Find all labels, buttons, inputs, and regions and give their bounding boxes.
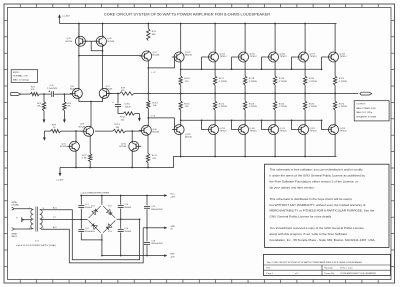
svg-text:TIP41C: TIP41C <box>280 56 288 58</box>
svg-text:c-about BRIDGE RECTIFIER: c-about BRIDGE RECTIFIER <box>81 191 110 194</box>
diode D#3 <box>103 221 115 233</box>
ground flag at R#6 <box>43 131 45 140</box>
wire R#26 to Q#23 <box>334 110 336 125</box>
wire base jog Q#23 <box>321 119 326 129</box>
svg-text:(+) 45V: (+) 45V <box>63 16 71 18</box>
resistor R#7 1.8k <box>82 154 92 162</box>
wire Q#14 collector to VCC rail <box>214 23 216 52</box>
svg-text:(at your option) any later ver: (at your option) any later version. <box>270 185 315 189</box>
VCC output flag <box>159 194 176 199</box>
capacitor C#1 3300uF <box>78 195 92 209</box>
wire R#21 to output rail <box>334 85 336 94</box>
svg-text:-45V: -45V <box>170 256 175 258</box>
svg-text:along with this program; if no: along with this program; if not, write t… <box>270 232 348 236</box>
svg-text:MAX POWER: 50W: MAX POWER: 50W <box>356 107 376 110</box>
wire Q13 collector down <box>180 135 182 158</box>
wire Q#19 collector to VEE rail <box>214 135 216 158</box>
svg-text:TIP41C: TIP41C <box>340 56 348 58</box>
svg-text:R#14: R#14 <box>184 78 190 80</box>
transistor Q#19 TIP42C <box>206 124 227 135</box>
wire secondary A#1 <box>41 206 139 259</box>
resistor R#20 0.75/5W <box>303 76 317 85</box>
svg-text:BC546: BC546 <box>106 88 113 90</box>
wire secondary A#2 <box>41 226 143 263</box>
wire C4 bottom to VEE <box>120 233 122 257</box>
svg-text:R#21: R#21 <box>339 78 345 80</box>
svg-text:R#24: R#24 <box>279 103 285 105</box>
wire output rail <box>140 93 358 95</box>
wire R#22 to Q#19 <box>214 110 216 125</box>
wire C2 bottom <box>81 233 102 241</box>
svg-text:GND: GND <box>170 226 175 228</box>
wire PSU VEE rail <box>102 255 159 257</box>
svg-text:2: 2 <box>29 227 30 229</box>
mains pin L <box>12 202 32 210</box>
wire Q7 emitter down <box>147 61 149 100</box>
wire R13 to Q8 base <box>126 130 141 132</box>
wire Q12 collector <box>180 23 182 52</box>
resistor R#18 0.75/5W <box>243 76 257 85</box>
svg-text:the Free Software Foundation;: the Free Software Foundation; either ver… <box>270 179 358 183</box>
VCC +45V power flag <box>58 15 70 24</box>
svg-text:Q#17: Q#17 <box>310 53 316 55</box>
svg-text:TIP42C: TIP42C <box>220 131 228 133</box>
svg-text:R#20: R#20 <box>309 78 315 80</box>
transistor Q#4 BC546 <box>60 141 79 152</box>
wire input node <box>39 93 51 95</box>
svg-text:1: 1 <box>29 208 30 210</box>
wire R16 to Q13 <box>180 110 182 125</box>
capacitor C#3 3300uF <box>118 195 132 209</box>
resistor R#11 470 <box>146 154 157 163</box>
svg-text:0.75/5W: 0.75/5W <box>279 81 288 83</box>
wire Q4 collector up <box>75 131 77 141</box>
transistor Q#21 TIP42C <box>266 124 287 135</box>
svg-text:OUTPUT:: OUTPUT: <box>356 104 366 106</box>
net stub L#2 <box>148 57 177 74</box>
wire C3 to mid <box>120 209 122 229</box>
capacitor C#2 3300uF <box>78 228 92 233</box>
wire Q11 collector up <box>131 131 133 141</box>
wire Q#18 emitter <box>334 62 336 76</box>
resistor R#22 0.75/5W <box>213 94 227 111</box>
svg-text:3300uF: 3300uF <box>124 207 132 209</box>
svg-text:BD140: BD140 <box>185 137 192 139</box>
svg-text:Q#22: Q#22 <box>310 128 316 130</box>
wire R#17 to output rail <box>214 85 216 94</box>
transistor Q#14 TIP41C <box>206 52 227 63</box>
resistor R#9 22k <box>120 87 135 95</box>
wire PSU ground rail <box>143 227 158 229</box>
resistor R#17 0.75/5W <box>213 76 227 85</box>
wire mirror out to VAS base <box>78 55 141 57</box>
svg-text:0.75/5W: 0.75/5W <box>219 106 228 108</box>
wire Q#16 emitter <box>274 62 276 76</box>
svg-text:Q#19: Q#19 <box>220 128 226 130</box>
svg-text:BC546: BC546 <box>153 55 160 57</box>
svg-text:0.75/5W: 0.75/5W <box>339 81 348 83</box>
output connector flag <box>360 92 372 95</box>
svg-text:R#19: R#19 <box>279 78 285 80</box>
wire bridge top to VCC <box>101 195 103 205</box>
transistor Q#12 BD139 <box>172 52 193 63</box>
svg-text:3300uF: 3300uF <box>124 231 132 233</box>
resistor R#13 390 <box>113 124 126 133</box>
wire Q6 rail tap <box>102 23 104 36</box>
title block <box>264 254 391 275</box>
svg-text:TIP42C: TIP42C <box>340 131 348 133</box>
wire base jog Q#22 <box>291 119 296 129</box>
svg-text:3300uF: 3300uF <box>85 231 93 233</box>
resistor R#2 47k <box>37 94 46 110</box>
wire Q#23 collector to VEE rail <box>334 135 336 157</box>
svg-text:100uF: 100uF <box>125 106 132 108</box>
svg-text:0.75/5W: 0.75/5W <box>309 106 318 108</box>
VEE output flag <box>159 254 176 259</box>
wire R#25 to Q#22 <box>304 110 306 125</box>
resistor R#25 0.75/5W <box>303 94 317 111</box>
resistor R#16 220 <box>179 94 190 111</box>
svg-text:0.75/5W: 0.75/5W <box>309 81 318 83</box>
capacitor C#6 6800uF <box>144 228 163 245</box>
svg-text:R#12: R#12 <box>153 102 159 104</box>
svg-text:Q#20: Q#20 <box>250 128 256 130</box>
wire R12 to Q8 <box>147 109 149 126</box>
svg-text:BC546: BC546 <box>79 126 86 128</box>
bridge label <box>81 191 110 194</box>
wire secondary CT <box>41 217 87 219</box>
transistor Q#17 TIP41C <box>296 52 317 63</box>
svg-text:Q#13: Q#13 <box>185 134 191 136</box>
svg-text:Q#16: Q#16 <box>280 53 286 55</box>
sheet title text <box>104 12 270 17</box>
wire bridge bottom to VEE <box>101 234 103 257</box>
wire base jog Q#21 <box>261 119 266 129</box>
svg-text:MAX: 1V (2Vpp): MAX: 1V (2Vpp) <box>13 78 29 81</box>
transistor Q#20 TIP42C <box>236 124 257 135</box>
svg-text:Foundation, Inc., 59 Temple Pl: Foundation, Inc., 59 Temple Place - Suit… <box>270 238 376 242</box>
svg-text:Q#12: Q#12 <box>185 52 191 54</box>
diode D#2 <box>103 205 115 218</box>
svg-text:R#18: R#18 <box>249 78 255 80</box>
wire upper base bus <box>181 68 322 70</box>
svg-text:NEUT: NEUT <box>12 236 18 238</box>
transistor Q#13 BD140 <box>172 124 193 138</box>
svg-text:File:: File: <box>267 268 271 270</box>
wire Q#15 emitter <box>244 62 246 76</box>
wire base jog Q#17 <box>291 57 296 70</box>
resistor R#10 100 <box>118 107 135 122</box>
svg-text:6800uF/50V: 6800uF/50V <box>151 243 163 245</box>
wire base jog Q#16 <box>261 57 266 70</box>
svg-text:This schematic is free softwar: This schematic is free software; you can… <box>270 168 364 172</box>
transistor Q#18 TIP41C <box>326 52 347 63</box>
wire R#23 to Q#20 <box>244 110 246 125</box>
wire Q4 emitter to rail <box>75 151 77 168</box>
svg-text:20 70 + Core: 20 70 + Core <box>340 268 353 270</box>
input connector IN <box>11 93 31 96</box>
svg-text:Q#11: Q#11 <box>121 143 127 145</box>
output note box <box>354 101 389 121</box>
capacitor C#9 2.2uF <box>47 85 58 97</box>
ground flag below R#3 <box>63 111 65 123</box>
wire Q2 collector <box>102 45 104 89</box>
svg-text:Page 1: Page 1 <box>267 273 275 275</box>
svg-text:+45V: +45V <box>170 196 176 198</box>
svg-text:R#10: R#10 <box>120 117 126 119</box>
svg-text:TIP41C: TIP41C <box>310 56 318 58</box>
resistor R#1 47k <box>30 87 39 96</box>
net stub L#3 <box>148 115 177 129</box>
transistor Q#23 TIP42C <box>326 124 347 135</box>
transistor Q#8 BC546 <box>139 125 160 136</box>
svg-text:Q#21: Q#21 <box>280 128 286 130</box>
svg-text:6800uF/50V: 6800uF/50V <box>151 209 163 211</box>
transistor Q#3 BC546 <box>79 124 94 137</box>
svg-text:a-plr-th PLUG IN POWER SUPPLY: a-plr-th PLUG IN POWER SUPPLY (DUAL) <box>16 244 56 247</box>
transistor Q#16 TIP41C <box>266 52 287 63</box>
resistor R#24 0.75/5W <box>273 94 287 111</box>
resistor R#26 0.75/5W <box>333 94 347 111</box>
wire R#18 to output rail <box>244 85 246 94</box>
svg-text:but WITHOUT ANY WARRANTY; with: but WITHOUT ANY WARRANTY; without even t… <box>270 203 366 207</box>
svg-text:R#23: R#23 <box>249 103 255 105</box>
wire feedback node <box>107 93 140 95</box>
transistor Q#15 TIP41C <box>236 52 257 63</box>
transistor Q#5 BC556 <box>66 36 88 47</box>
wire R6 to Q9 base <box>61 130 84 132</box>
wire mirror base link <box>86 41 104 51</box>
wire Q12 emitter / base bus tap <box>180 62 182 76</box>
wire R7 to rail <box>89 162 91 169</box>
diode D#4 <box>89 221 101 233</box>
svg-text:0.75/5W: 0.75/5W <box>339 106 348 108</box>
svg-text:TIP41C: TIP41C <box>220 56 228 58</box>
wire Q#21 collector to VEE rail <box>274 135 276 158</box>
wire bridge right node <box>117 218 141 220</box>
svg-text:TIP42C: TIP42C <box>250 131 258 133</box>
wire base jog Q#19 <box>201 119 206 129</box>
svg-text:INPUT:: INPUT: <box>13 72 20 74</box>
wire Q5 rail tap <box>78 23 80 36</box>
wire bridge left node <box>86 218 88 220</box>
svg-text:BC556: BC556 <box>108 41 115 43</box>
wire base jog Q#18 <box>321 57 326 70</box>
svg-text:Q#18: Q#18 <box>340 53 346 55</box>
svg-text:VCC: VCC <box>170 194 175 196</box>
resistor R#6 1k <box>44 124 60 132</box>
svg-text:0.75/5W: 0.75/5W <box>279 106 288 108</box>
svg-text:0.75/5W: 0.75/5W <box>219 81 228 83</box>
wire Q#15 collector to VCC rail <box>244 23 246 52</box>
ground flag below R#2 <box>43 111 45 123</box>
svg-text:Title: CORE CIRCUIT SYSTEM OF: Title: CORE CIRCUIT SYSTEM OF 50 WATTS P… <box>267 261 363 264</box>
svg-text:TIP41C: TIP41C <box>250 56 258 58</box>
svg-text:0.75/5W: 0.75/5W <box>249 81 258 83</box>
svg-text:CORE AMPLIFIER PLUS LIBRARIES: CORE AMPLIFIER PLUS LIBRARIES <box>340 272 376 275</box>
wire bottom supply rail <box>60 157 337 168</box>
wire base jog Q#15 <box>231 57 236 70</box>
wire base jog Q#20 <box>231 119 236 129</box>
svg-text:This schematic is distributed: This schematic is distributed in the hop… <box>270 197 353 201</box>
capacitor C#5 6800uF <box>144 195 163 211</box>
svg-text:Q#14: Q#14 <box>220 53 226 55</box>
svg-text:R#26: R#26 <box>339 103 345 105</box>
svg-text:MAX OUT: 28Vp: MAX OUT: 28Vp <box>356 111 373 114</box>
wire to R#13 <box>95 130 113 132</box>
resistor R#21 0.75/5W <box>333 76 347 85</box>
svg-text:MERCHANTABILITY or FITNESS FOR: MERCHANTABILITY or FITNESS FOR A PARTICU… <box>270 209 375 213</box>
svg-text:BC546: BC546 <box>153 132 160 134</box>
ground flag at R#10 <box>135 114 141 122</box>
svg-text:BC546: BC546 <box>70 88 77 90</box>
transistor Q#22 TIP42C <box>296 124 317 135</box>
capacitor C#4 3300uF <box>118 228 132 233</box>
svg-text:SPEAKER: 8 OHMS: SPEAKER: 8 OHMS <box>356 115 376 118</box>
wire Q8 emitter <box>147 135 149 153</box>
svg-text:R#16: R#16 <box>184 103 190 105</box>
wire cap to Q1 base <box>54 93 72 95</box>
wire R11 to rail <box>147 163 149 169</box>
svg-text:220VAC: 220VAC <box>12 204 20 207</box>
wire Q11 emitter to rail <box>131 151 133 168</box>
svg-text:Q#23: Q#23 <box>340 128 346 130</box>
license text box <box>265 164 390 247</box>
resistor R#14 220 <box>179 76 190 85</box>
svg-text:C#10: C#10 <box>125 104 131 106</box>
svg-text:R#17: R#17 <box>219 78 225 80</box>
svg-text:R#25: R#25 <box>309 103 315 105</box>
wire Q#16 collector to VCC rail <box>274 23 276 52</box>
wire top supply rail <box>60 23 337 25</box>
svg-text:Q#15: Q#15 <box>250 53 256 55</box>
wire Q#17 collector to VCC rail <box>304 23 306 52</box>
svg-text:R#13: R#13 <box>115 124 121 126</box>
svg-text:Drawn By:: Drawn By: <box>325 273 335 275</box>
input note box <box>11 70 37 83</box>
transistor Q#11 BC546 <box>120 141 142 152</box>
svg-text:R#11: R#11 <box>152 155 158 157</box>
wire lower base bus <box>181 119 322 121</box>
resistor R#23 0.75/5W <box>243 94 257 111</box>
wire C1 to CT node <box>80 209 82 229</box>
wire R14 to output rail <box>180 85 182 94</box>
svg-text:0.75/5W: 0.75/5W <box>249 106 258 108</box>
svg-text:NORMAL: 0.8V: NORMAL: 0.8V <box>13 75 29 78</box>
svg-text:Revision:: Revision: <box>325 268 334 270</box>
capacitor C#10 100uF <box>112 94 131 109</box>
wire R#19 to output rail <box>274 85 276 94</box>
wire base jog Q#14 <box>201 57 206 70</box>
wire C5 to ground rail <box>146 209 148 228</box>
svg-text:BC546: BC546 <box>60 146 67 148</box>
mains pin N <box>12 228 32 239</box>
wire R#24 to Q#21 <box>274 110 276 125</box>
wire Q#14 emitter <box>214 62 216 76</box>
svg-text:TIP42C: TIP42C <box>280 131 288 133</box>
svg-text:You should have received a cop: You should have received a copy of the G… <box>270 226 365 230</box>
resistor R#3 47k <box>63 94 72 110</box>
transistor Q#6 BC556 <box>94 36 115 47</box>
wire Q#20 collector to VEE rail <box>244 135 246 158</box>
svg-text:(-) 45V: (-) 45V <box>57 180 64 182</box>
svg-text:BD139: BD139 <box>185 55 192 57</box>
wire diff pair tail <box>79 99 103 127</box>
svg-text:TIP42C: TIP42C <box>310 131 318 133</box>
resistor R#12 1.8k <box>147 93 159 109</box>
svg-text:GNU General Public License for: GNU General Public License for more deta… <box>270 215 333 219</box>
svg-text:it under the terms of the GNU: it under the terms of the GNU General Pu… <box>270 174 366 178</box>
svg-text:BC546: BC546 <box>120 146 127 148</box>
wire Q1 collector <box>78 24 80 89</box>
wire C6 to VEE rail <box>146 245 148 256</box>
transistor Q#2 BC546 <box>99 86 113 99</box>
wire PSU VCC rail <box>80 195 158 197</box>
svg-text:CORE CIRCUIT SYSTEM OF 50 WATT: CORE CIRCUIT SYSTEM OF 50 WATTS POWER AM… <box>104 12 270 17</box>
svg-text:2.2uF/50V: 2.2uF/50V <box>47 88 58 90</box>
svg-text:3300uF: 3300uF <box>85 207 93 209</box>
resistor R#19 0.75/5W <box>273 76 287 85</box>
wire Q#22 collector to VEE rail <box>304 135 306 158</box>
resistor R#8 680 <box>147 23 157 41</box>
primary tap stub <box>16 217 32 222</box>
VEE -45V power flag <box>57 168 64 182</box>
svg-text:BC556: BC556 <box>66 41 73 43</box>
svg-text:R#22: R#22 <box>219 103 225 105</box>
wire R#20 to output rail <box>304 85 306 94</box>
wire Q#17 emitter <box>304 62 306 76</box>
wire Q#18 collector to VCC rail <box>334 24 336 52</box>
GND output flag <box>159 226 176 231</box>
diode D#1 <box>89 205 101 218</box>
transistor Q#7 BC546 <box>139 51 160 62</box>
wire Q3 emitter <box>89 136 91 153</box>
transformer T#1 <box>16 207 56 247</box>
svg-text:VEE: VEE <box>170 254 175 256</box>
transistor Q#1 BC546 <box>70 86 82 99</box>
